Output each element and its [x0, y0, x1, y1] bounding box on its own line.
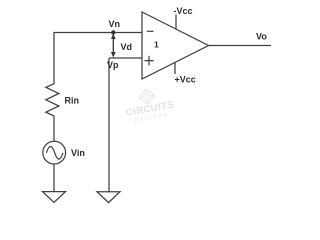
Vd arrowhead down	[111, 52, 116, 58]
wire left vertical to resistor	[53, 33, 55, 85]
resistor Rin	[46, 84, 59, 116]
svg-text:Vo: Vo	[256, 32, 267, 42]
source Vin circle	[43, 141, 66, 164]
op-amp U1 triangle	[142, 12, 209, 79]
svg-text:Rin: Rin	[65, 96, 80, 106]
ground G1	[43, 192, 66, 203]
wire source to ground	[53, 164, 55, 192]
svg-text:Vd: Vd	[121, 42, 133, 52]
-Vcc supply stub	[175, 15, 177, 30]
node Vn junction dot	[111, 30, 115, 34]
svg-text:1: 1	[154, 40, 159, 50]
svg-text:Vp: Vp	[107, 60, 119, 70]
Vd arrow shaft	[112, 36, 114, 55]
wire Vp net horizontal	[109, 57, 142, 59]
+Vcc supply stub	[174, 62, 176, 74]
output wire Vo	[209, 45, 272, 47]
watermark logo	[138, 88, 156, 106]
ground G2	[97, 192, 120, 203]
wire resistor to source	[53, 116, 55, 142]
op-amp plus input sign	[144, 56, 153, 66]
svg-text:+Vcc: +Vcc	[175, 75, 196, 85]
svg-text:Vn: Vn	[109, 19, 121, 29]
Vd arrowhead up	[111, 34, 116, 40]
svg-text:-Vcc: -Vcc	[174, 6, 193, 16]
wire top Vn net	[54, 32, 143, 34]
op-amp minus input sign	[147, 30, 154, 32]
wire Vp to ground	[108, 58, 110, 192]
svg-text:Vin: Vin	[71, 148, 85, 158]
source sine wave	[46, 147, 63, 160]
